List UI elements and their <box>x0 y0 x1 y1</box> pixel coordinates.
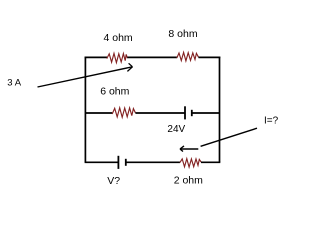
resistor R1 4 ohm <box>107 53 128 62</box>
battery B2 V? long plate <box>117 156 119 169</box>
svg-text:2 ohm: 2 ohm <box>174 174 203 186</box>
resistor R4 2 ohm <box>180 159 201 167</box>
current arrow for 3 A line <box>38 67 133 87</box>
svg-text:6 ohm: 6 ohm <box>100 86 129 98</box>
current arrow for 3 A lower barb <box>127 67 132 72</box>
battery B2 V? short plate <box>125 159 127 166</box>
wire left side <box>84 57 86 163</box>
svg-text:I=?: I=? <box>264 116 279 127</box>
battery B1 24V short plate <box>191 110 193 116</box>
current arrow I upper barb <box>180 146 184 149</box>
current arrow I shaft <box>180 148 198 150</box>
wire top-left segment <box>85 56 107 58</box>
wire bottom-right segment <box>201 161 220 163</box>
wire bottom-left segment <box>85 161 119 163</box>
current arrow I lower barb <box>180 149 183 152</box>
wire top-middle segment <box>127 56 177 58</box>
resistor R2 8 ohm <box>177 52 199 61</box>
svg-text:4 ohm: 4 ohm <box>104 32 133 44</box>
wire middle-left segment <box>85 112 112 114</box>
svg-text:8 ohm: 8 ohm <box>168 28 197 40</box>
wire middle-right segment <box>192 112 220 114</box>
svg-text:3 A: 3 A <box>7 77 21 88</box>
wire bottom-center segment <box>126 161 180 163</box>
annotation leader line I=? <box>201 128 257 146</box>
wire right side <box>219 57 221 163</box>
svg-text:24V: 24V <box>167 124 185 135</box>
resistor R3 6 ohm <box>112 108 135 118</box>
wire top-right segment <box>199 56 221 58</box>
svg-text:V?: V? <box>107 175 120 187</box>
wire middle-center segment <box>135 112 184 114</box>
battery B1 24V long plate <box>184 106 186 119</box>
current arrow for 3 A upper barb <box>129 63 133 67</box>
